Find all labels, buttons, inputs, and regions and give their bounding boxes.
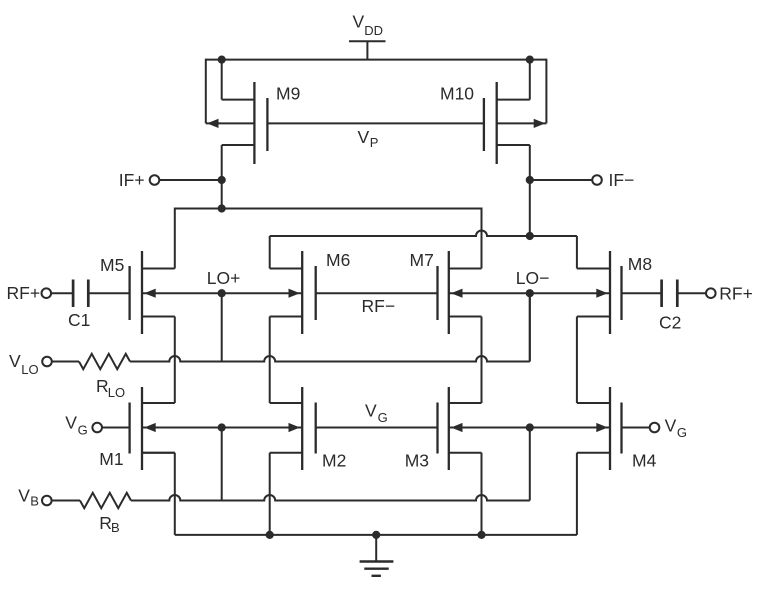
wire M10 bulk to rail [545, 59, 547, 124]
label M3 [405, 451, 429, 471]
wire M9 source to IF+ node [221, 145, 223, 180]
wire IF- node down [529, 180, 531, 236]
label RF+ right [719, 284, 753, 304]
label RF+ left [7, 283, 41, 303]
svg-text:V: V [358, 127, 370, 147]
wire M8 source to M4 drain [576, 317, 578, 404]
capacitor C2 [622, 280, 678, 308]
svg-text:V: V [665, 415, 677, 435]
svg-text:M10: M10 [440, 83, 474, 103]
label VP [358, 127, 379, 150]
svg-text:C2: C2 [659, 313, 681, 333]
label M6 [326, 250, 350, 270]
wire M3-M4 bulk line [449, 423, 610, 432]
wire M9 drain to rail [221, 60, 223, 100]
transistor M10 [484, 82, 547, 164]
label M4 [632, 451, 657, 471]
svg-text:RF+: RF+ [7, 283, 41, 303]
transistor M4 [577, 387, 622, 470]
transistor M8 [577, 251, 622, 334]
label M8 [628, 254, 652, 274]
label LO- [516, 268, 550, 288]
wire VP gate line [267, 122, 484, 124]
wire LO+ bias down [221, 293, 223, 361]
transistor M3 [438, 387, 482, 470]
svg-text:RF−: RF− [362, 296, 396, 316]
resistor RLO [79, 354, 130, 369]
node IF+ junction [218, 176, 226, 184]
wire M9 bulk to rail [205, 59, 207, 124]
svg-text:DD: DD [364, 23, 383, 38]
svg-text:M6: M6 [326, 250, 350, 270]
wire VDD rail [206, 59, 547, 61]
svg-text:M2: M2 [322, 451, 346, 471]
label M2 [322, 451, 346, 471]
terminal RF+ left [42, 288, 74, 298]
svg-text:IF+: IF+ [119, 170, 145, 190]
label M10 [440, 83, 474, 103]
wire left bulk to RB line [221, 428, 223, 501]
wire LO- bias down [529, 293, 531, 361]
label IF- [609, 170, 635, 190]
transistor M1 [130, 387, 175, 470]
wire LO+ bulk line [142, 289, 302, 298]
junction M3 source at ground bus [477, 531, 485, 539]
wire ground bus [175, 534, 577, 536]
wire M1 source to ground line [142, 453, 175, 535]
svg-text:LO−: LO− [516, 268, 550, 288]
wire RLO to LO- node [130, 293, 530, 361]
wire M4 source to ground line [576, 453, 578, 535]
svg-text:M3: M3 [405, 451, 429, 471]
label VB [18, 485, 39, 508]
label C2 [659, 313, 681, 333]
svg-text:M4: M4 [632, 451, 657, 471]
label M1 [99, 449, 123, 469]
junction ground tap [372, 531, 380, 539]
junction M9 drain at rail [218, 56, 226, 64]
junction IF- branch [526, 232, 534, 240]
wire IF+ to M5/M7 drains [175, 209, 482, 269]
wire M5 source to M1 drain [174, 317, 176, 404]
wire RF- gate tie [316, 292, 438, 294]
label RB [99, 513, 119, 535]
terminal RF+ right [677, 288, 715, 298]
label LO+ [207, 268, 241, 288]
wire M3 source to ground line [481, 453, 483, 535]
svg-text:M1: M1 [99, 449, 123, 469]
label VG left [65, 413, 87, 438]
svg-text:M8: M8 [628, 254, 652, 274]
terminal VG left [92, 423, 129, 433]
svg-text:V: V [9, 351, 21, 371]
node IF- junction [526, 176, 534, 184]
wire M7 source to M3 drain [481, 317, 483, 404]
wire M10 drain to rail [529, 60, 531, 100]
terminal VB [42, 496, 80, 506]
svg-text:LO: LO [108, 385, 125, 400]
transistor M9 [206, 82, 268, 164]
label RLO [96, 376, 125, 400]
wire M6 source to M2 drain [269, 317, 271, 404]
wire M10 source to IF- node [529, 145, 531, 180]
transistor M5 [130, 251, 175, 334]
svg-text:RF+: RF+ [719, 284, 753, 304]
junction M10 drain at rail [526, 56, 534, 64]
svg-text:G: G [378, 410, 388, 425]
wire RB to right bulk node [131, 428, 530, 501]
label VLO [9, 351, 39, 377]
resistor RB [80, 493, 131, 508]
transistor M2 [270, 387, 316, 470]
svg-text:V: V [18, 485, 30, 505]
svg-text:P: P [370, 135, 379, 150]
svg-text:C1: C1 [68, 310, 90, 330]
svg-text:V: V [365, 400, 377, 420]
svg-text:V: V [65, 413, 77, 433]
power VDD symbol [349, 41, 386, 59]
svg-text:G: G [78, 422, 88, 437]
label M9 [276, 83, 300, 103]
svg-text:R: R [96, 376, 109, 396]
node LO- junction [526, 289, 534, 297]
svg-text:LO+: LO+ [207, 268, 241, 288]
junction M2 source at ground bus [266, 531, 274, 539]
wire M1-M2 bulk line [142, 423, 302, 432]
label IF+ [119, 170, 145, 190]
label VG right [665, 415, 687, 440]
svg-text:B: B [111, 520, 120, 535]
junction right bulk node [526, 423, 534, 431]
ground [360, 535, 394, 576]
terminal IF- [530, 175, 602, 185]
terminal IF+ [150, 175, 222, 185]
label M7 [410, 250, 434, 270]
terminal VG right [622, 423, 660, 433]
wire VG gate tie [316, 427, 438, 429]
label M5 [100, 255, 124, 275]
svg-text:V: V [353, 11, 365, 31]
label VDD [353, 11, 384, 38]
junction IF+ branch [218, 204, 226, 212]
label RF- [362, 296, 396, 316]
svg-text:G: G [677, 425, 687, 440]
wire M2 source to ground line [269, 453, 271, 535]
node LO+ junction [218, 289, 226, 297]
wire IF- to M6/M8 drains [270, 231, 577, 269]
svg-text:M9: M9 [276, 83, 300, 103]
svg-text:IF−: IF− [609, 170, 635, 190]
transistor M7 [438, 251, 482, 334]
label VG middle [365, 400, 388, 425]
wire IF+ node down [221, 180, 223, 209]
transistor M6 [270, 251, 316, 334]
svg-text:M7: M7 [410, 250, 434, 270]
svg-text:LO: LO [21, 362, 38, 377]
terminal VLO [42, 357, 79, 367]
junction left bulk node [218, 423, 226, 431]
wire LO- bulk line [449, 289, 610, 298]
svg-text:M5: M5 [100, 255, 124, 275]
label C1 [68, 310, 90, 330]
capacitor C1 [73, 280, 130, 308]
svg-text:B: B [30, 494, 39, 509]
